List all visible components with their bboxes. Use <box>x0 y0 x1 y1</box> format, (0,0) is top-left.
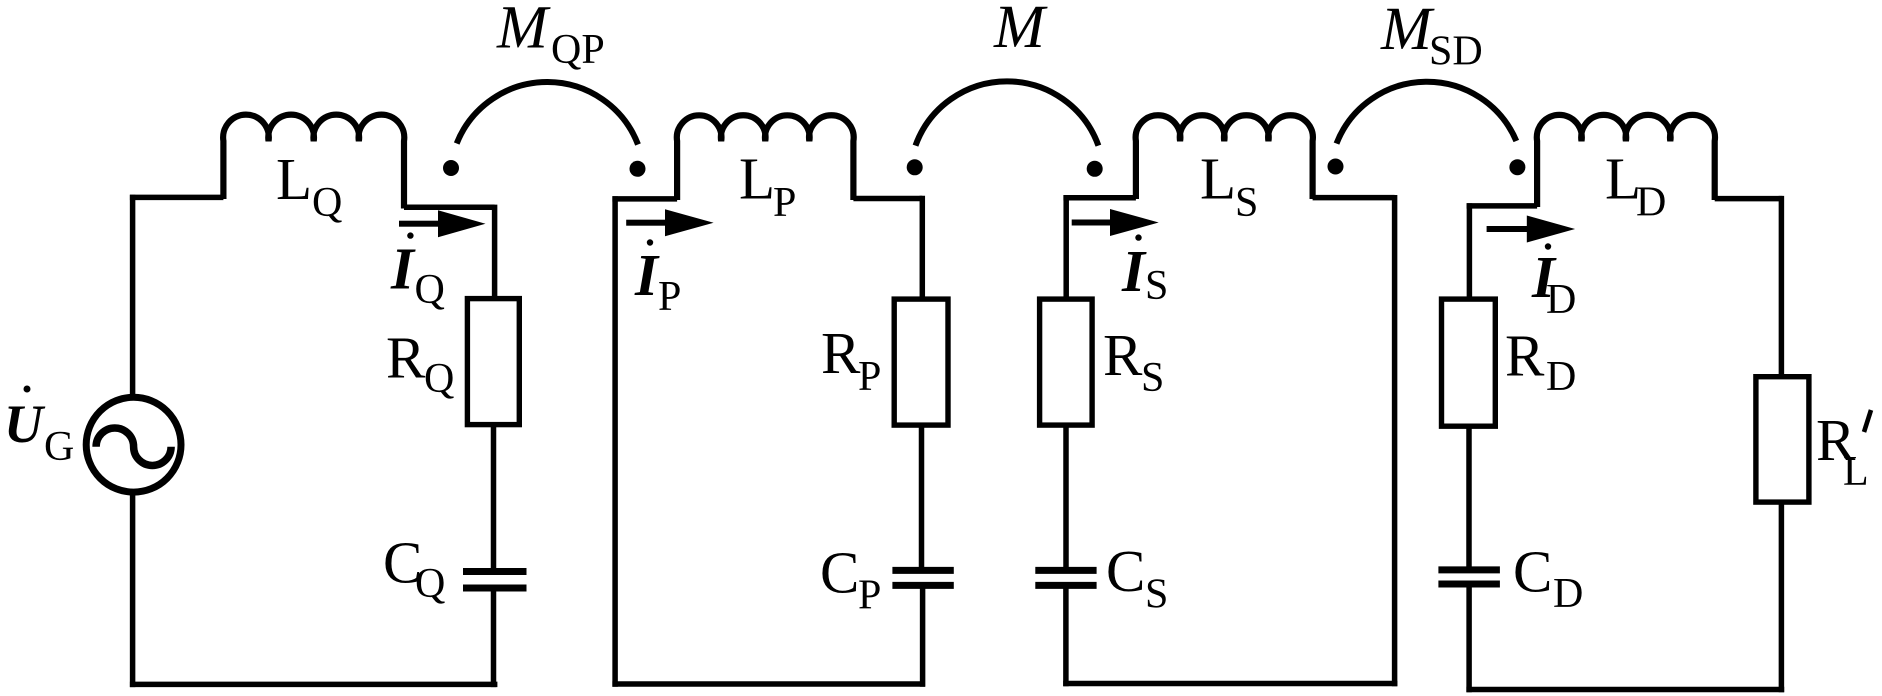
svg-text:R: R <box>1505 322 1545 388</box>
resistor RL' load <box>1756 377 1809 502</box>
wire loop2 right horizontal <box>853 196 922 202</box>
svg-text:L: L <box>739 145 775 211</box>
wire loop1 left vertical bottom <box>130 490 136 687</box>
label M <box>993 0 1048 61</box>
label IQ <box>390 232 445 313</box>
label LQ <box>276 146 342 226</box>
svg-text:C: C <box>820 540 859 606</box>
current arrow IQ <box>399 210 486 237</box>
inductor LS <box>1136 115 1313 199</box>
wire loop4 right vertical to RL <box>1779 196 1785 379</box>
svg-text:L: L <box>1843 449 1869 495</box>
svg-text:R: R <box>821 320 861 386</box>
svg-text:S: S <box>1141 355 1164 401</box>
svg-text:Q: Q <box>415 561 445 607</box>
wire loop2 top-left horizontal <box>612 196 677 202</box>
label IS <box>1121 234 1168 309</box>
label IP <box>634 239 681 320</box>
svg-text:M: M <box>1380 0 1435 63</box>
label LD <box>1605 145 1666 225</box>
wire CQ to bottom <box>491 591 497 687</box>
wire loop4 left vertical to RD <box>1467 203 1473 301</box>
svg-text:P: P <box>858 354 881 400</box>
svg-text:D: D <box>1546 277 1576 323</box>
current arrow ID <box>1487 216 1576 243</box>
svg-text:I: I <box>634 242 660 308</box>
wire CP to bottom <box>920 588 926 686</box>
label LS <box>1200 145 1258 226</box>
coupling arc MSD <box>1337 82 1517 144</box>
svg-text:G: G <box>44 424 74 470</box>
wire RP to CP <box>919 425 925 567</box>
svg-text:P: P <box>858 573 881 619</box>
svg-text:R: R <box>386 325 426 391</box>
wire loop1 right horizontal <box>404 205 495 211</box>
wire loop1 right vertical to RQ <box>492 205 498 301</box>
label MQP <box>496 0 605 73</box>
ac source UG circle <box>86 397 181 492</box>
capacitor CP <box>892 570 953 585</box>
wire loop3 right horizontal <box>1313 195 1395 201</box>
svg-text:Q: Q <box>312 180 342 226</box>
svg-text:D: D <box>1636 180 1666 226</box>
svg-text:SD: SD <box>1429 29 1483 75</box>
coupling dot LP-right <box>907 159 923 175</box>
wire RL to bottom <box>1779 502 1785 692</box>
wire CD to bottom <box>1466 587 1472 692</box>
wire RQ to CQ <box>491 425 497 569</box>
coupling arc M <box>916 81 1099 145</box>
wire loop1 bottom horizontal <box>130 682 498 688</box>
wire loop4 top-left horizontal <box>1467 203 1538 209</box>
svg-text:S: S <box>1235 180 1258 226</box>
wire loop2 left vertical <box>612 196 618 687</box>
wire loop1 top-left horizontal <box>130 195 224 201</box>
current arrow IP <box>626 209 713 236</box>
wire RS to CS <box>1063 425 1069 567</box>
coupling dot LS-left <box>1087 161 1103 177</box>
label MSD <box>1380 0 1483 75</box>
svg-text:C: C <box>1513 539 1552 605</box>
svg-text:M: M <box>496 0 551 61</box>
svg-text:S: S <box>1145 263 1168 309</box>
wire loop3 bottom horizontal <box>1063 681 1397 687</box>
svg-text:Q: Q <box>424 356 454 402</box>
ac source UG sine <box>96 428 171 466</box>
wire loop4 bottom horizontal <box>1466 687 1784 693</box>
wire loop3 left vertical to RS <box>1063 195 1069 301</box>
wire loop3 top-left horizontal <box>1063 195 1136 201</box>
label RP <box>821 320 881 400</box>
inductor LD <box>1537 115 1715 207</box>
resistor RS <box>1040 299 1093 425</box>
svg-text:C: C <box>1106 538 1145 604</box>
label UG <box>4 386 74 471</box>
label RL' <box>1816 407 1871 495</box>
wire loop1 left vertical top <box>130 195 136 400</box>
inductor LP <box>677 115 854 200</box>
svg-text:U: U <box>4 394 46 454</box>
label CQ <box>383 529 445 607</box>
wire CS to bottom <box>1063 588 1069 686</box>
inductor LQ <box>223 115 404 209</box>
wire loop3 right vertical <box>1392 195 1398 686</box>
label LP <box>739 145 796 226</box>
wire loop2 bottom horizontal <box>612 681 925 687</box>
svg-text:L: L <box>276 146 312 212</box>
svg-text:P: P <box>658 274 681 320</box>
resistor RD <box>1442 299 1496 426</box>
svg-text:M: M <box>993 0 1048 61</box>
label RD <box>1505 322 1576 400</box>
current arrow IS <box>1072 209 1159 236</box>
coupling arc MQP <box>457 82 638 144</box>
label RQ <box>386 325 454 403</box>
wire loop2 right vertical to RP <box>920 196 926 302</box>
coupling dot LP-left <box>630 161 646 177</box>
svg-text:D: D <box>1553 571 1583 617</box>
svg-text:I: I <box>390 236 416 302</box>
resistor RQ <box>467 299 519 425</box>
svg-text:I: I <box>1121 238 1147 304</box>
wire RD to CD <box>1466 426 1472 567</box>
coupling dot LQ <box>443 160 459 176</box>
capacitor CD <box>1438 570 1500 584</box>
svg-text:D: D <box>1546 354 1576 400</box>
label CD <box>1513 539 1583 617</box>
svg-text:QP: QP <box>551 27 605 73</box>
resistor RP <box>894 299 948 425</box>
svg-text:R: R <box>1103 322 1143 388</box>
label CS <box>1106 538 1168 617</box>
capacitor CS <box>1035 570 1096 585</box>
label CP <box>820 540 881 619</box>
svg-text:Q: Q <box>415 267 445 313</box>
capacitor CQ <box>463 572 527 589</box>
svg-text:L: L <box>1200 145 1236 211</box>
svg-text:P: P <box>773 180 796 226</box>
svg-text:S: S <box>1145 572 1168 618</box>
wire loop4 right horizontal <box>1715 196 1783 202</box>
coupling dot LD <box>1509 159 1525 175</box>
coupling dot LS-right <box>1328 159 1344 175</box>
label ID <box>1531 243 1576 323</box>
label RS <box>1103 322 1164 401</box>
